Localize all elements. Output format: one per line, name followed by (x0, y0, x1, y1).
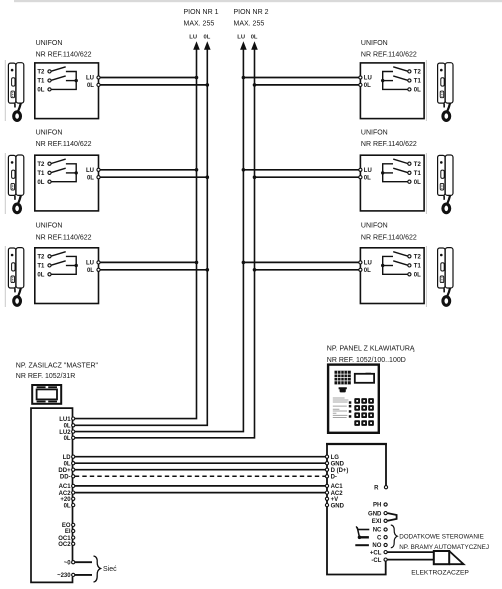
relay contact NO stub (355, 544, 369, 546)
junction row3 right LU (242, 261, 246, 265)
terminal PH (373, 503, 387, 509)
row2 left LU wire (100, 169, 196, 171)
terminal 0L (b) (64, 436, 75, 442)
power supply box U7 (31, 408, 73, 582)
svg-text:NR REF.1140/622: NR REF.1140/622 (361, 141, 417, 148)
terminal +CL (370, 550, 387, 556)
terminal DD+ (58, 468, 74, 474)
svg-text:NR REF.1140/622: NR REF.1140/622 (361, 51, 417, 58)
svg-text:NR REF.1140/622: NR REF.1140/622 (36, 141, 92, 148)
terminal GND (top) (325, 461, 344, 467)
junction row1 right LU (242, 76, 246, 80)
riser PION2 0L wire (75, 48, 255, 438)
wire DD- to D- (dashed) (75, 475, 326, 477)
unifon U1 (row1 left) (35, 63, 100, 119)
terminal OC2 (58, 542, 75, 548)
row2 left 0L wire (100, 176, 207, 178)
terminal R (374, 485, 387, 491)
svg-text:NR REF. 1052/31R: NR REF. 1052/31R (16, 373, 76, 380)
svg-text:MAX. 255: MAX. 255 (234, 20, 265, 27)
svg-text:NR REF.1140/622: NR REF.1140/622 (361, 234, 417, 241)
unifon U4 (row1 right) (359, 63, 424, 119)
svg-text:0L: 0L (64, 424, 71, 430)
svg-text:0L: 0L (64, 503, 71, 509)
unifon U3 (row3 left) (35, 248, 100, 304)
handset icon row1 left (8, 63, 23, 121)
terminal EXI (372, 519, 387, 525)
svg-text:PH: PH (373, 503, 381, 509)
row2 right 0L wire (255, 176, 359, 178)
handset icon row2 right (438, 155, 453, 213)
svg-text:AC2: AC2 (331, 491, 344, 497)
wire LD-LG (75, 456, 326, 458)
svg-text:+V: +V (331, 497, 339, 503)
unifon U6 (row3 right) (359, 248, 424, 304)
junction row3 left LU (195, 261, 199, 265)
row1 left 0L wire (100, 84, 207, 86)
junction row2 right LU (242, 168, 246, 172)
svg-text:OC1: OC1 (58, 536, 71, 542)
svg-text:UNIFON: UNIFON (36, 40, 63, 47)
terminal AC2 (59, 491, 75, 497)
wire +CL to strike (387, 551, 434, 553)
svg-text:GND: GND (368, 511, 382, 517)
terminal 0L (d) (64, 503, 75, 509)
row3 right 0L wire (255, 269, 359, 271)
keypad panel icon (328, 365, 379, 433)
svg-text:MAX. 255: MAX. 255 (184, 20, 215, 27)
svg-text:NP. BRAMY AUTOMATYCZNEJ: NP. BRAMY AUTOMATYCZNEJ (399, 544, 489, 551)
svg-text:NP. ZASILACZ "MASTER": NP. ZASILACZ "MASTER" (16, 363, 99, 370)
wire AC1 (75, 485, 326, 487)
terminal OC1 (58, 536, 75, 542)
svg-text:0L: 0L (64, 461, 71, 467)
svg-text:0L: 0L (64, 436, 71, 442)
svg-text:R: R (374, 485, 379, 491)
svg-text:LU2: LU2 (59, 430, 71, 436)
terminal AC1 (59, 484, 75, 490)
unifon U2 (row2 left) (35, 155, 100, 211)
handset icon row2 left (8, 155, 23, 213)
junction row1 left LU (195, 76, 199, 80)
svg-text:AC1: AC1 (331, 484, 344, 490)
svg-text:UNIFON: UNIFON (361, 223, 388, 230)
svg-text:D (D+): D (D+) (331, 468, 349, 474)
svg-text:OC2: OC2 (58, 542, 71, 548)
svg-text:UNIFON: UNIFON (361, 40, 388, 47)
svg-text:LU: LU (189, 34, 197, 40)
svg-text:ELEKTROZACZEP: ELEKTROZACZEP (411, 570, 469, 577)
svg-text:0L: 0L (251, 34, 258, 40)
handset icon row3 right (438, 248, 453, 306)
gray scan line left column (5, 60, 426, 307)
transformer icon (32, 385, 61, 404)
brace DODATKOWE (391, 525, 397, 548)
terminal GND (right) (368, 511, 387, 517)
svg-text:NR REF.1140/622: NR REF.1140/622 (36, 51, 92, 58)
terminal AC1 panel (325, 484, 343, 490)
terminal EI (65, 529, 75, 535)
svg-text:UNIFON: UNIFON (361, 129, 388, 136)
svg-text:Sieć: Sieć (103, 566, 117, 573)
svg-text:LU: LU (237, 34, 245, 40)
terminal NO (372, 543, 387, 549)
wire DD+ to D(D+) (75, 469, 326, 471)
wire 0L-GND (75, 462, 326, 464)
riser PION2 LU wire (75, 48, 244, 432)
svg-text:AC1: AC1 (59, 484, 72, 490)
svg-text:NO: NO (372, 543, 381, 549)
terminal GND (bottom left) (325, 503, 344, 509)
svg-text:NR REF.1140/622: NR REF.1140/622 (36, 234, 92, 241)
terminal +20 (60, 497, 74, 503)
svg-text:LU1: LU1 (59, 417, 71, 423)
jumper GND-EXI (388, 513, 397, 521)
terminal AC2 panel (325, 491, 343, 497)
row1 left LU wire (100, 77, 196, 79)
riser PION1 LU wire (75, 48, 197, 419)
relay contact C stub (360, 536, 369, 538)
svg-text:D-: D- (331, 475, 337, 481)
svg-text:~230: ~230 (57, 573, 71, 579)
svg-text:GND: GND (331, 503, 345, 509)
svg-text:0L: 0L (204, 34, 211, 40)
keypad connection box outline (327, 444, 386, 575)
terminal EO (62, 523, 75, 529)
svg-text:GND: GND (331, 461, 345, 467)
terminal ~0 (64, 560, 75, 566)
svg-text:PION NR 2: PION NR 2 (234, 9, 269, 16)
terminal LD (63, 455, 75, 461)
svg-text:DD+: DD+ (58, 468, 71, 474)
gray scan edge top (14, 0, 502, 2)
svg-text:NC: NC (373, 528, 382, 534)
terminal NC (373, 528, 387, 534)
svg-text:C: C (377, 535, 382, 541)
junction row2 left 0L (206, 175, 210, 179)
row3 right LU wire (243, 261, 358, 263)
wire AC2 (75, 492, 326, 494)
svg-text:+CL: +CL (370, 550, 382, 556)
terminal D (D+) (325, 468, 348, 474)
terminal 0L (c) (64, 461, 75, 467)
electric strike symbol (434, 551, 464, 564)
svg-text:AC2: AC2 (59, 491, 72, 497)
terminal D- (325, 475, 337, 481)
row1 right LU wire (243, 77, 358, 79)
terminal DD- (60, 475, 75, 481)
svg-text:DD-: DD- (60, 475, 71, 481)
terminal 0L (a) (64, 424, 75, 430)
terminal -CL (371, 558, 387, 564)
svg-text:NP. PANEL Z KLAWIATURĄ: NP. PANEL Z KLAWIATURĄ (327, 345, 415, 352)
junction row1 left 0L (206, 83, 210, 87)
svg-text:LD: LD (63, 455, 72, 461)
svg-text:PION NR 1: PION NR 1 (184, 9, 219, 16)
svg-text:DODATKOWE STEROWANIE: DODATKOWE STEROWANIE (399, 533, 484, 540)
handset icon row3 left (8, 248, 23, 306)
svg-text:LG: LG (331, 455, 340, 461)
svg-text:+20: +20 (60, 497, 71, 503)
terminal LG (325, 455, 339, 461)
row3 left 0L wire (100, 269, 207, 271)
handset icon row1 right (438, 63, 453, 121)
terminal +V (325, 497, 338, 503)
wire ~230 to mains (75, 574, 92, 576)
row2 right LU wire (243, 169, 358, 171)
junction row2 right 0L (253, 175, 257, 179)
junction row3 left 0L (206, 268, 210, 272)
svg-text:EI: EI (65, 529, 71, 535)
relay contact NC stub (358, 529, 370, 531)
riser PION1 0L wire (75, 48, 208, 425)
terminal LU1 (59, 417, 75, 423)
row1 right 0L wire (255, 84, 359, 86)
brace Siec (94, 556, 101, 582)
relay contact blade (357, 527, 359, 537)
svg-text:UNIFON: UNIFON (36, 129, 63, 136)
wire -CL to strike (387, 559, 434, 561)
svg-text:~0: ~0 (64, 560, 72, 566)
unifon U5 (row2 right) (359, 155, 424, 211)
junction row2 left LU (195, 168, 199, 172)
terminal C (377, 535, 387, 541)
svg-text:EXI: EXI (372, 519, 382, 525)
svg-text:EO: EO (62, 523, 71, 529)
wire ~0 to mains (75, 561, 92, 563)
terminal ~230 (57, 573, 75, 579)
svg-text:-CL: -CL (371, 558, 381, 564)
svg-text:UNIFON: UNIFON (36, 223, 63, 230)
row3 left LU wire (100, 261, 196, 263)
junction row3 right 0L (253, 268, 257, 272)
terminal LU2 (59, 430, 75, 436)
svg-text:NR REF. 1052/100..100D: NR REF. 1052/100..100D (327, 357, 406, 364)
junction row1 right 0L (253, 83, 257, 87)
